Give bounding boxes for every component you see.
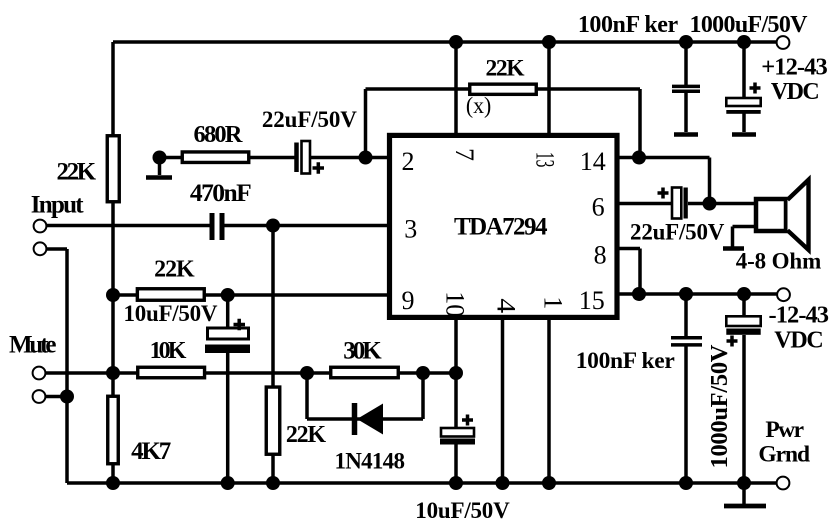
svg-text:Input: Input (31, 192, 84, 219)
svg-text:Pwr: Pwr (765, 417, 804, 443)
svg-text:1: 1 (539, 296, 568, 309)
svg-text:100nF ker: 100nF ker (578, 12, 679, 38)
svg-text:TDA7294: TDA7294 (454, 213, 548, 240)
svg-text:9: 9 (402, 286, 415, 315)
svg-text:4: 4 (491, 298, 520, 313)
svg-text:470nF: 470nF (190, 178, 252, 207)
svg-text:13: 13 (531, 152, 560, 168)
svg-text:Mute: Mute (9, 331, 56, 358)
svg-text:7: 7 (450, 148, 479, 161)
svg-text:4-8 Ohm: 4-8 Ohm (736, 248, 822, 273)
svg-text:3: 3 (404, 215, 417, 244)
svg-text:680R: 680R (194, 121, 243, 148)
svg-text:-12-43: -12-43 (769, 301, 830, 328)
svg-text:+12-43: +12-43 (761, 54, 828, 81)
svg-text:4K7: 4K7 (131, 438, 171, 465)
svg-text:22K: 22K (57, 158, 97, 185)
svg-text:1N4148: 1N4148 (334, 449, 405, 474)
svg-text:2: 2 (402, 147, 415, 176)
svg-text:22K: 22K (286, 422, 327, 448)
svg-text:Grnd: Grnd (758, 442, 810, 468)
svg-text:22uF/50V: 22uF/50V (262, 107, 357, 132)
svg-text:15: 15 (579, 286, 605, 315)
svg-text:30K: 30K (343, 338, 382, 365)
svg-text:22uF/50V: 22uF/50V (630, 220, 725, 245)
svg-text:10uF/50V: 10uF/50V (124, 301, 218, 326)
svg-text:1000uF/50V: 1000uF/50V (690, 12, 809, 38)
svg-text:VDC: VDC (774, 327, 824, 353)
svg-text:14: 14 (580, 147, 606, 176)
svg-text:100nF ker: 100nF ker (576, 348, 675, 374)
svg-text:8: 8 (594, 240, 607, 269)
svg-text:22K: 22K (154, 256, 195, 282)
svg-text:22K: 22K (486, 56, 526, 82)
svg-text:10uF/50V: 10uF/50V (415, 498, 510, 523)
svg-text:1000uF/50V: 1000uF/50V (706, 344, 733, 468)
svg-text:VDC: VDC (771, 79, 820, 105)
svg-text:10K: 10K (150, 338, 187, 364)
svg-text:(x): (x) (466, 93, 491, 119)
svg-text:10: 10 (441, 291, 470, 317)
svg-text:6: 6 (592, 193, 605, 222)
